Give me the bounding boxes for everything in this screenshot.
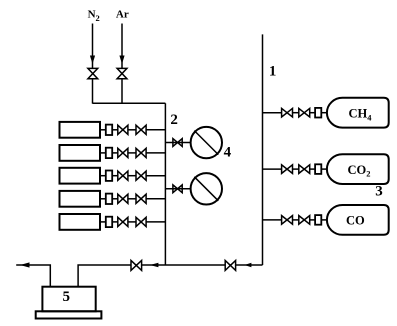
wire — [263, 112, 282, 114]
valve C2a (bowtie) — [282, 165, 293, 174]
port PC3 — [315, 215, 321, 225]
cylinder CO2 — [327, 154, 389, 184]
valve B2 (bowtie) — [136, 148, 146, 157]
svg-text:4: 4 — [224, 145, 232, 161]
valve G2 (bowtie) — [173, 185, 182, 193]
wire: N2 valve to manifold — [92, 79, 94, 104]
wire: reactor to main bottom line — [78, 265, 262, 287]
wire — [310, 112, 315, 114]
flow arrow — [244, 263, 251, 268]
wire — [293, 219, 299, 221]
valve W1 (bowtie) — [131, 261, 142, 271]
box row4 — [60, 191, 101, 207]
port PC1 — [315, 108, 321, 118]
wire — [112, 152, 118, 154]
wire — [263, 168, 282, 170]
wire — [128, 152, 136, 154]
valve B3 (bowtie) — [136, 171, 146, 180]
box row3 — [60, 168, 101, 184]
valve V-Ar (hourglass) — [117, 68, 127, 78]
base plate — [36, 311, 102, 318]
wire — [128, 198, 136, 200]
valve C1a (bowtie) — [282, 108, 293, 117]
valve C2b (bowtie) — [299, 165, 310, 174]
valve A4 (bowtie) — [118, 194, 128, 203]
box 5 — [42, 287, 95, 312]
valve V-N2 (hourglass) — [88, 68, 98, 78]
wire: outlet to reactor — [16, 265, 50, 287]
svg-text:CO: CO — [346, 213, 365, 227]
gauge meter 4a — [191, 127, 222, 158]
valve C3b (bowtie) — [299, 216, 310, 225]
wire: top manifold — [93, 102, 166, 104]
wire — [128, 221, 136, 223]
wire — [128, 129, 136, 131]
box row5 — [60, 214, 101, 230]
reactor channel row 4 — [60, 191, 166, 207]
wire: Ar valve to manifold — [121, 79, 123, 104]
cylinder CH4 — [327, 98, 389, 128]
valve A3 (bowtie) — [118, 171, 128, 180]
reactor channel row 5 — [60, 214, 166, 230]
svg-text:5: 5 — [63, 289, 71, 305]
reactor unit 5 — [36, 287, 102, 319]
port P2 — [106, 148, 112, 158]
flow arrow — [150, 263, 159, 268]
wire — [112, 175, 118, 177]
wire — [112, 198, 118, 200]
wire — [112, 129, 118, 131]
svg-text:2: 2 — [170, 112, 178, 128]
wire — [165, 142, 190, 144]
wire — [321, 219, 327, 221]
port PC2 — [315, 164, 321, 174]
wire — [293, 168, 299, 170]
svg-text:1: 1 — [269, 63, 277, 79]
valve B1 (bowtie) — [136, 125, 146, 134]
svg-text:Ar: Ar — [116, 9, 129, 21]
wire — [100, 198, 106, 200]
valve B5 (bowtie) — [136, 217, 146, 226]
reactor channel row 2 — [60, 145, 166, 161]
gas branch CH4 — [263, 98, 389, 128]
reactor channel row 1 — [60, 122, 166, 138]
wire — [310, 168, 315, 170]
port P3 — [106, 171, 112, 181]
wire: line 2 (vertical header) — [164, 103, 166, 265]
port P1 — [106, 125, 112, 135]
gas branch CO2 — [263, 154, 389, 184]
arrow outlet — [20, 262, 30, 267]
valve B4 (bowtie) — [136, 194, 146, 203]
box row2 — [60, 145, 101, 161]
valve A1 (bowtie) — [118, 125, 128, 134]
valve C1b (bowtie) — [299, 108, 310, 117]
wire — [310, 219, 315, 221]
wire — [128, 175, 136, 177]
reactor channel row 3 — [60, 168, 166, 184]
arrow on N2 line — [90, 56, 95, 65]
arrow on Ar line — [119, 56, 124, 65]
wire to header — [146, 221, 165, 223]
gauge meter 4b — [191, 173, 222, 204]
port P5 — [106, 217, 112, 227]
wire — [100, 152, 106, 154]
wire — [165, 188, 190, 190]
valve W2 (bowtie) — [225, 261, 235, 271]
cylinder CO — [327, 205, 389, 235]
wire: N2 feed line — [92, 24, 94, 69]
valve C3a (bowtie) — [282, 216, 293, 225]
wire — [263, 219, 282, 221]
gas branch CO — [263, 205, 389, 235]
wire to header — [146, 175, 165, 177]
wire — [293, 112, 299, 114]
wire — [100, 175, 106, 177]
bottom outlet line — [16, 261, 262, 287]
valve G1 (bowtie) — [173, 139, 182, 147]
svg-text:3: 3 — [375, 184, 383, 200]
wire to header — [146, 198, 165, 200]
wire to header — [146, 152, 165, 154]
wire to header — [146, 129, 165, 131]
box row1 — [60, 122, 101, 138]
wire — [100, 221, 106, 223]
valve A2 (bowtie) — [118, 148, 128, 157]
valve A5 (bowtie) — [118, 217, 128, 226]
gauge branch 2 — [165, 173, 222, 204]
wire — [321, 168, 327, 170]
wire — [321, 112, 327, 114]
wire: line 1 (vertical gas header) — [262, 34, 264, 265]
wire — [112, 221, 118, 223]
wire: Ar feed line — [121, 24, 123, 69]
wire — [100, 129, 106, 131]
port P4 — [106, 194, 112, 204]
gauge branch 1 — [165, 127, 222, 158]
